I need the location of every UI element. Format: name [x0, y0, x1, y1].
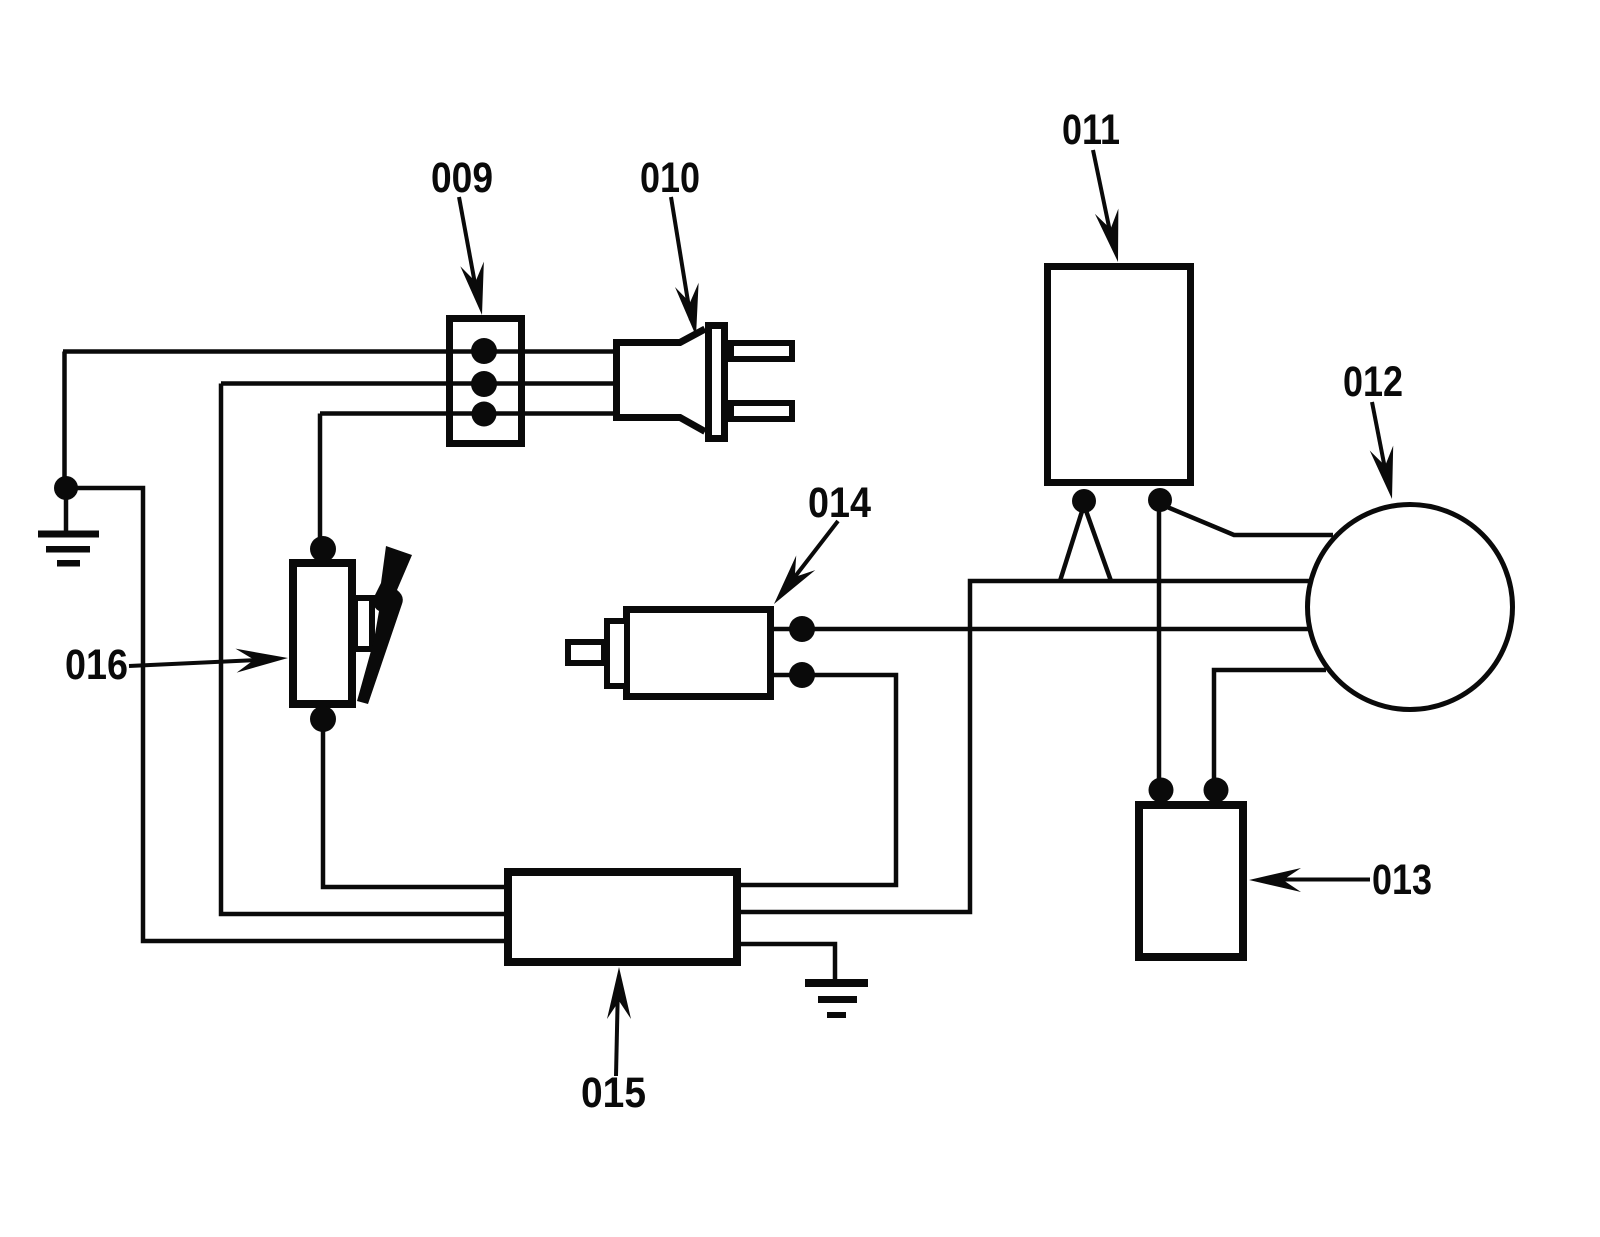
- motor circle 012: [1308, 505, 1513, 710]
- node: 011 right terminal: [1148, 488, 1172, 512]
- solenoid 014 stem: [568, 642, 604, 663]
- svg-text:016: 016: [65, 641, 128, 689]
- switch 016 lever clip: [357, 546, 412, 704]
- wire: V right leg from 011 left terminal: [1084, 505, 1111, 581]
- label arrow 010: [671, 197, 691, 320]
- plug 010 body: [617, 329, 706, 432]
- node: 009 terminal 3: [472, 402, 497, 427]
- wire: 013 right terminal up then to circle 012: [1214, 670, 1326, 785]
- label arrow 016: [129, 660, 258, 666]
- label arrow 012: [1372, 402, 1388, 484]
- box 013: [1139, 805, 1243, 957]
- solenoid 014 collar: [607, 621, 627, 686]
- wire: bottom 009 wire down to 016 top: [318, 414, 323, 546]
- switch 016 body: [293, 563, 352, 704]
- wire: 011 right terminal down to 013 left terminal: [1157, 504, 1162, 785]
- node: 014 top terminal: [789, 616, 815, 642]
- node: 009 terminal 1: [471, 338, 497, 364]
- wire: junction right then down left side then to 015: [66, 488, 508, 941]
- switch 016 side bump: [355, 598, 372, 649]
- wire: 015 right to ground 2: [737, 944, 835, 983]
- wire: middle wire down then to 015: [221, 384, 508, 915]
- svg-text:012: 012: [1343, 358, 1403, 406]
- plug 010 flange: [709, 326, 725, 439]
- wire: 014 top terminal to circle 012: [774, 627, 1309, 632]
- label arrow 011: [1093, 150, 1113, 246]
- svg-text:009: 009: [431, 154, 493, 202]
- wire: 015 right to bus up to y581 then to circle 012: [737, 581, 1309, 912]
- wire: bottom 009 wire to plug: [320, 411, 613, 416]
- wire: middle 009 wire to plug: [221, 381, 613, 386]
- node: 016 bottom terminal: [310, 706, 336, 732]
- wire: 011 right terminal diagonal then to circle 012: [1160, 504, 1333, 535]
- plug 010 top prong: [731, 343, 792, 359]
- node: ground junction top-left: [54, 476, 78, 500]
- svg-text:015: 015: [581, 1069, 646, 1117]
- svg-text:013: 013: [1372, 856, 1432, 904]
- ground 1 (top left): [38, 531, 99, 538]
- wire: 014 bottom terminal right, down, left to 015: [737, 675, 896, 885]
- wire: junction to ground stem: [64, 488, 69, 533]
- wire: 016 bottom down then right to 015: [323, 722, 508, 887]
- node: 013 right terminal: [1204, 778, 1229, 803]
- node: 014 bottom terminal: [789, 662, 815, 688]
- box 011: [1048, 267, 1191, 483]
- label arrow 013: [1262, 878, 1370, 882]
- label arrow 009: [459, 197, 478, 300]
- wire: V left leg from 011 left terminal: [1060, 505, 1084, 581]
- node: 016 top terminal: [310, 536, 336, 562]
- label arrow 015: [616, 983, 618, 1076]
- node: 009 terminal 2: [471, 371, 497, 397]
- terminal block 009: [450, 319, 522, 444]
- node: 013 left terminal: [1149, 778, 1174, 803]
- solenoid 014 body: [627, 610, 771, 697]
- box 015: [508, 872, 737, 962]
- svg-text:011: 011: [1062, 106, 1120, 154]
- plug 010 bottom prong: [731, 403, 792, 419]
- wire: left vertical down to junction: [62, 352, 67, 489]
- ground 2 (right of 015): [805, 979, 868, 987]
- label arrow 014: [787, 521, 838, 587]
- wire: top horizontal from ground junction to plug through 009: [63, 349, 613, 354]
- svg-text:014: 014: [808, 479, 871, 527]
- node: 011 left terminal: [1072, 489, 1096, 513]
- svg-text:010: 010: [640, 154, 700, 202]
